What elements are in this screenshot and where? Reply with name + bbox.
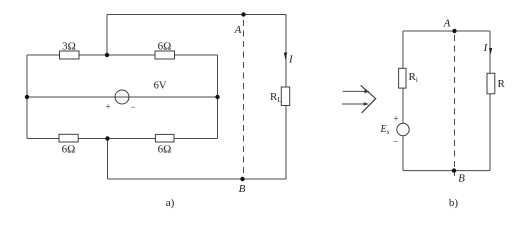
svg-text:Es: Es	[380, 124, 390, 136]
wire: inner right vertical	[217, 55, 219, 139]
current arrow I (circuit b)	[489, 48, 492, 55]
implication arrow head top	[365, 90, 370, 94]
implication arrow head bottom	[364, 102, 369, 106]
svg-text:−: −	[393, 137, 398, 147]
wire: middle branch with source	[27, 96, 218, 98]
wire: inner bottom (6-ohm / 6-ohm branch)	[27, 138, 218, 140]
svg-text:+: +	[105, 102, 110, 112]
implication arrow shaft bottom	[342, 103, 368, 105]
wire: outer right vertical (circuit a)	[285, 15, 287, 180]
dashed line A-B (circuit a)	[243, 20, 245, 175]
source Es circle	[397, 123, 409, 135]
svg-text:+: +	[393, 114, 398, 124]
node J1 junction	[105, 53, 109, 57]
svg-text:b): b)	[449, 197, 459, 209]
resistor Ri	[399, 68, 406, 88]
svg-text:RL: RL	[270, 91, 282, 104]
svg-text:6Ω: 6Ω	[158, 144, 172, 156]
resistor 6-ohm bottom left	[59, 134, 78, 142]
wire: right vertical with R (circuit b)	[489, 31, 491, 171]
node middle-left junction	[25, 95, 29, 99]
svg-text:R: R	[498, 78, 506, 90]
current arrow I (circuit a)	[284, 53, 287, 61]
svg-text:B: B	[458, 173, 465, 185]
dashed tick below B (circuit b)	[454, 172, 456, 177]
resistor 6-ohm bottom right	[155, 134, 174, 142]
wire: outer bottom (circuit a)	[108, 178, 287, 180]
node J2 junction	[105, 136, 109, 140]
svg-text:B: B	[239, 183, 246, 195]
svg-text:I: I	[288, 54, 294, 66]
resistor 6-ohm top	[155, 51, 175, 59]
svg-text:A: A	[234, 24, 242, 36]
resistor R (circuit b)	[487, 73, 495, 94]
svg-text:3Ω: 3Ω	[62, 41, 76, 53]
svg-text:6Ω: 6Ω	[62, 144, 76, 156]
resistor 3-ohm	[60, 51, 80, 59]
resistor RL	[281, 87, 289, 106]
svg-text:Ri: Ri	[409, 71, 418, 84]
wire: top (circuit b)	[403, 30, 490, 32]
node A (circuit a)	[241, 12, 245, 16]
dashed line A-B (circuit b)	[454, 35, 456, 167]
svg-text:6Ω: 6Ω	[158, 41, 172, 53]
node B (circuit b)	[452, 168, 456, 172]
implication arrow shaft top	[343, 90, 369, 92]
svg-text:−: −	[130, 102, 135, 112]
svg-text:A: A	[443, 18, 451, 30]
svg-text:a): a)	[166, 197, 175, 209]
wire: drop from node J2 to outer bottom	[107, 139, 109, 180]
implication arrow chevron	[361, 85, 376, 113]
wire: outer top (circuit a)	[107, 14, 286, 16]
wire: left vertical with Ri and Es (circuit b)	[402, 31, 404, 171]
wire: riser from node J1 to outer top	[106, 15, 108, 56]
wire: inner top (3-ohm / 6-ohm branch)	[27, 54, 218, 56]
node B (circuit a)	[240, 177, 244, 181]
svg-text:I: I	[483, 42, 489, 54]
voltage source 6V circle	[115, 90, 129, 104]
node A (circuit b)	[452, 29, 456, 33]
wire: bottom (circuit b)	[403, 170, 490, 172]
wire: inner left vertical	[26, 55, 28, 139]
svg-text:6V: 6V	[154, 81, 167, 92]
node middle-right junction	[215, 95, 219, 99]
